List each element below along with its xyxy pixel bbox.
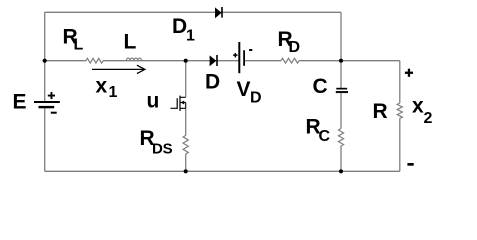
- svg-text:C: C: [313, 75, 328, 98]
- wire mosfet source branch: [185, 108, 187, 135]
- wire bottom rail: [45, 170, 400, 172]
- wire right branch lower: [399, 118, 401, 171]
- label R_L: [63, 25, 84, 53]
- svg-text:D: D: [172, 15, 187, 38]
- svg-text:D: D: [205, 71, 220, 94]
- wire capacitor branch middle: [340, 93, 342, 128]
- wire left branch lower: [44, 107, 46, 171]
- resistor R_L zigzag: [86, 58, 103, 63]
- diode D1: [215, 7, 222, 18]
- wire middle rail segment 2: [103, 60, 239, 62]
- battery V_D minus sign: [249, 49, 252, 51]
- wire left branch upper: [44, 12, 46, 101]
- node junction mosfet drain: [184, 59, 188, 63]
- svg-text:2: 2: [424, 110, 433, 127]
- node junction capacitor top: [339, 59, 343, 63]
- resistor R_C zigzag: [338, 129, 343, 146]
- capacitor C: [336, 88, 348, 93]
- battery E plus sign: [48, 92, 55, 99]
- battery E: [34, 101, 60, 108]
- svg-text:1: 1: [186, 28, 195, 45]
- label x_1: [96, 75, 118, 101]
- svg-text:V: V: [237, 78, 251, 101]
- resistor R load zigzag: [397, 103, 402, 118]
- wire middle rail segment 3: [245, 60, 281, 62]
- label x_2: [412, 95, 433, 127]
- svg-text:D: D: [250, 90, 262, 107]
- svg-text:D: D: [289, 39, 301, 56]
- svg-text:u: u: [147, 90, 160, 113]
- wire top rail: [45, 11, 342, 13]
- svg-text:1: 1: [109, 84, 118, 101]
- label minus x2: [407, 163, 413, 166]
- wire capacitor branch upper: [340, 12, 342, 88]
- svg-text:E: E: [13, 91, 27, 114]
- label plus x2: [405, 69, 413, 77]
- wire capacitor branch lower: [340, 146, 342, 172]
- transistor Q1 mosfet: [171, 96, 186, 111]
- wire middle rail segment 1: [45, 60, 86, 62]
- wire below R_DS: [185, 154, 187, 171]
- resistor R_DS zigzag: [183, 135, 188, 154]
- resistor R_D zigzag: [281, 58, 299, 63]
- wire right branch upper: [399, 61, 401, 103]
- svg-text:x: x: [96, 75, 108, 98]
- battery V_D plus sign: [233, 53, 237, 57]
- label R_C: [306, 116, 331, 145]
- svg-text:C: C: [319, 128, 331, 145]
- current arrow x1: [92, 65, 145, 73]
- svg-text:DS: DS: [152, 141, 173, 158]
- svg-text:R: R: [373, 100, 388, 123]
- label R_DS: [140, 127, 173, 157]
- node junction capacitor bottom: [339, 169, 343, 173]
- node junction mosfet bottom: [184, 169, 188, 173]
- svg-text:L: L: [124, 30, 137, 53]
- battery V_D: [239, 42, 244, 73]
- svg-text:L: L: [74, 37, 84, 54]
- node junction at middle rail left: [43, 59, 47, 63]
- svg-text:x: x: [412, 95, 424, 118]
- wire middle rail segment 4: [299, 60, 400, 62]
- label D_1: [172, 15, 195, 45]
- diode D: [210, 55, 217, 66]
- wire mosfet drain branch: [185, 61, 187, 98]
- label V_D: [237, 78, 262, 107]
- label R_D: [278, 28, 301, 56]
- battery E minus sign: [51, 112, 57, 114]
- inductor L: [126, 58, 141, 61]
